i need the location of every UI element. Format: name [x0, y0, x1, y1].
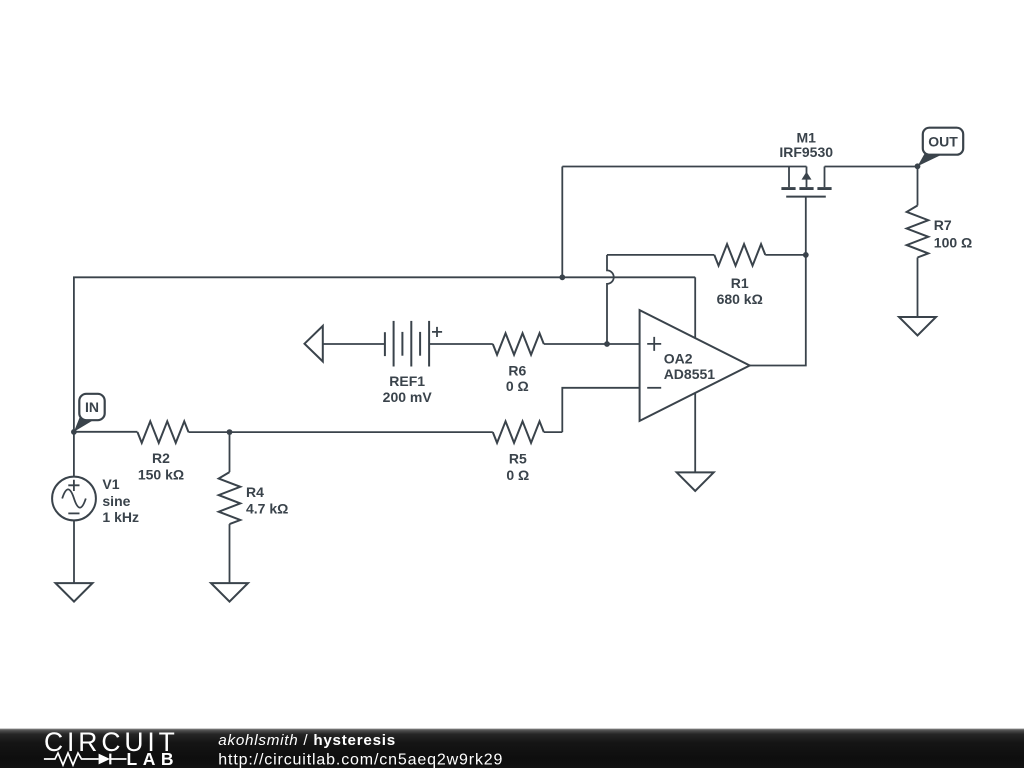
- wire gate feedback: MOSFET gate down to op-amp output: [750, 197, 806, 366]
- node IN junction: [71, 429, 77, 435]
- ground R4: [211, 583, 248, 602]
- R5 value label: [506, 450, 529, 483]
- R2 value label: [138, 450, 184, 482]
- svg-text:150 kΩ: 150 kΩ: [138, 466, 184, 482]
- node junction R1 / gate / output: [803, 252, 809, 258]
- M1 value label: [779, 130, 833, 160]
- R7 value label: [934, 217, 972, 251]
- R1 value label: [717, 275, 763, 307]
- svg-text:R2: R2: [152, 450, 170, 466]
- svg-text:R5: R5: [509, 450, 527, 466]
- R6 value label: [506, 362, 529, 394]
- svg-text:OA2: OA2: [664, 350, 693, 366]
- svg-text:R6: R6: [508, 362, 526, 378]
- wire op-amp V- supply pin: [694, 393, 696, 472]
- svg-text:R4: R4: [246, 484, 264, 500]
- node junction mid rail / top rail drop: [559, 274, 565, 280]
- svg-text:akohlsmith / hysteresis: akohlsmith / hysteresis: [218, 732, 396, 749]
- svg-text:680 kΩ: 680 kΩ: [717, 291, 763, 307]
- wire inverting input lead: [562, 388, 639, 432]
- wire top rail to MOSFET source/body: [562, 166, 806, 168]
- svg-text:0 Ω: 0 Ω: [506, 467, 529, 483]
- wire R1 left lead: [607, 254, 714, 256]
- svg-text:100 Ω: 100 Ω: [934, 234, 972, 250]
- wire mid rail from IN corner to op-amp V+ corner: [74, 277, 695, 432]
- ground op-amp V-: [677, 472, 714, 491]
- wire ground to REF1: [323, 343, 385, 345]
- REF1 value label: [383, 373, 433, 405]
- svg-text:0 Ω: 0 Ω: [506, 378, 529, 394]
- node IN flag: [74, 394, 105, 432]
- op-amp OA2: [640, 310, 750, 421]
- resistor R5: [493, 421, 544, 443]
- ground V1: [56, 583, 93, 602]
- wire IN node to V1: [73, 432, 75, 477]
- wire REF1 to R6: [429, 343, 493, 345]
- wire vertical from top rail down to mid rail: [561, 167, 563, 278]
- svg-text:IRF9530: IRF9530: [779, 144, 833, 160]
- wire MOSFET drain to OUT: [825, 166, 918, 168]
- voltage source V1: [52, 477, 96, 521]
- wire IN node to R2: [74, 431, 138, 433]
- svg-text:200 mV: 200 mV: [383, 389, 433, 405]
- wire R4 bottom lead: [229, 524, 231, 583]
- ground REF1 (left-pointing): [305, 326, 323, 362]
- V1 value label: [102, 476, 139, 525]
- wire R1 left vertical with hop over mid rail: [607, 255, 614, 344]
- wire R4 top lead: [229, 432, 231, 472]
- svg-text:sine: sine: [102, 493, 130, 509]
- wire R1 right lead: [765, 254, 806, 256]
- wire op-amp V+ supply pin: [694, 277, 696, 338]
- wire OUT to R7: [917, 166, 919, 205]
- wire junction to R5: [230, 431, 493, 433]
- node junction + input / R1 feedback: [604, 341, 610, 347]
- node OUT junction: [915, 163, 921, 169]
- resistor R6: [493, 333, 544, 355]
- svg-text:1 kHz: 1 kHz: [102, 509, 139, 525]
- footer banner: [0, 729, 1024, 768]
- node junction R2/R4/R5: [227, 429, 233, 435]
- svg-text:IN: IN: [85, 399, 99, 415]
- svg-text:AD8551: AD8551: [664, 366, 716, 382]
- resistor R2: [138, 421, 189, 443]
- wire R2 right lead: [189, 431, 230, 433]
- svg-text:OUT: OUT: [928, 133, 958, 149]
- svg-text:4.7 kΩ: 4.7 kΩ: [246, 501, 288, 517]
- transistor M1 (PMOS): [781, 167, 831, 197]
- battery REF1: [385, 321, 442, 367]
- resistor R7: [907, 206, 929, 258]
- svg-text:REF1: REF1: [389, 373, 425, 389]
- svg-text:V1: V1: [102, 476, 119, 492]
- node OUT flag: [918, 128, 964, 167]
- svg-text:http://circuitlab.com/cn5aeq2w: http://circuitlab.com/cn5aeq2w9rk29: [218, 751, 503, 768]
- svg-text:R1: R1: [731, 275, 749, 291]
- OA2 label: [664, 350, 716, 382]
- resistor R1: [714, 244, 765, 266]
- wire V1 bottom lead: [73, 520, 75, 583]
- wire non-inverting input lead: [544, 343, 640, 345]
- resistor R4: [219, 472, 241, 524]
- svg-text:R7: R7: [934, 217, 952, 233]
- CircuitLab logo squiggle (resistor + diode): [44, 753, 127, 765]
- wire R5 right lead: [544, 431, 563, 433]
- wire R7 bottom lead: [917, 258, 919, 318]
- svg-text:LAB: LAB: [127, 749, 179, 768]
- R4 value label: [246, 484, 288, 517]
- ground R7: [899, 317, 936, 336]
